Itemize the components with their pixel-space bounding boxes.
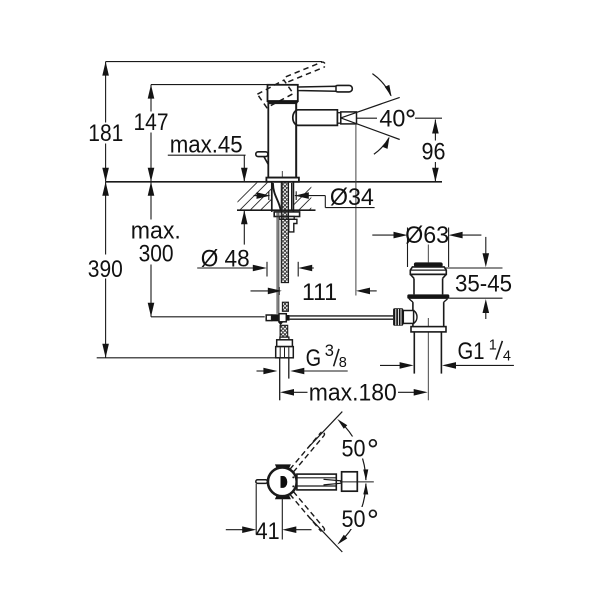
dimension 41 extension line right [281,498,283,540]
diameter 34 underline [325,207,374,209]
svg-text:390: 390 [88,256,123,283]
drain centreline upper [427,245,429,263]
drain tailpipe right wall [440,332,442,374]
rod tee fitting white block [279,314,286,322]
top view screw dot lower [292,485,294,487]
40 degree arc upper with arrowhead [372,74,391,96]
faucet base flange on deck [266,178,299,182]
pop-up plug cap dark top [414,262,443,267]
50 degree extension line lower [308,516,342,552]
dimension 181 vertical line [105,62,107,123]
top view lever arm outline [297,474,336,490]
dashed lever handle raised upper line [286,62,322,77]
dimension 41 line and arrows [226,529,251,531]
extension line top of faucet head (147 datum) [151,84,268,86]
degree symbol lower 50 [370,510,377,517]
drain tailpipe left wall [413,332,415,374]
diameter 34 leader elbow [324,196,326,208]
svg-text:max.45: max.45 [170,132,243,159]
dimension 390 arrows [102,182,109,196]
dimension 111 right arrow [356,288,370,295]
dashed lever handle raised lower line [288,67,324,82]
spray fan centre horizontal line [357,117,378,119]
dimension G3/8 right arrow [290,368,304,375]
dimension max.300 vertical line [150,182,152,220]
shank inner funnel curve [273,183,281,211]
dimension 41 extension line left [255,484,257,535]
pop-up vertical rod left line [276,212,278,314]
svg-text:50: 50 [342,506,366,533]
rod tee fitting left cap [266,315,271,321]
spray fan lower line [341,118,400,140]
top view lever arm inner line upper [297,477,336,479]
upper 50 degree arc arrowhead at centreline [363,469,368,481]
dimension diameter 63 line and arrows [372,234,401,236]
svg-text:147: 147 [134,109,169,136]
top view lever grip [342,472,358,491]
hose ferrule band [280,337,289,340]
dimension max.45 leader underline [168,154,246,156]
top view lever neck taper upper [324,479,342,481]
dimension 96 top extension line [415,117,442,119]
dimension 181 arrows [102,62,109,76]
dimension G1 1/4 line and arrows [380,364,408,366]
svg-text:Ø34: Ø34 [330,184,374,211]
svg-text:300: 300 [139,241,174,268]
top view mounting tab upper [275,464,291,468]
spray fan upper line [341,97,400,118]
upper 50 degree arc [344,426,366,480]
aerator (mousseur) box [341,112,357,124]
top view mounting tab lower [275,495,291,499]
top view dashed lever swung up outer line [293,436,324,472]
top view lever arm inner line lower [297,485,336,487]
pop-up vertical rod right line [278,212,280,314]
dashed lever handle raised tip cap [321,62,325,67]
drain lower body left wall [412,302,414,327]
drain lower body right wall [443,302,445,327]
pop-up rod knob at rear of body [256,152,268,157]
top view dashed lever swung up inner line [290,433,321,469]
drain lever boss fillet arc [414,311,417,324]
dimension 35-45 lower arrow [485,311,487,320]
svg-text:3: 3 [325,342,334,360]
drain taper below seal right [444,299,448,302]
shank inner right tube line [291,183,293,211]
drain coupling nut [411,327,446,332]
G3/8 coupling nut lower with ridges [276,347,294,358]
dimension 96 arrows [432,120,439,134]
svg-text:8: 8 [339,355,347,371]
svg-text:181: 181 [88,120,123,147]
top view dashed lever swung down tip cap [321,528,325,532]
drain flange mid line [410,269,446,271]
flexible supply hose braided upper section [281,182,288,283]
countertop deck bottom surface line [237,209,316,211]
top view screw dot upper [292,476,294,478]
mounting nut lower step [279,217,294,220]
drain neck taper right [443,274,447,278]
svg-text:G1: G1 [458,338,485,365]
dimension 96 vertical line [434,120,436,141]
dimension 35-45 bottom extension line [449,297,502,299]
drain taper below seal left [409,299,413,302]
top view dashed lever swung down outer line [293,492,324,528]
aerator axis extension line vertical [355,124,357,296]
lower 50 degree arc [344,484,366,538]
faucet head bottom collar band [268,100,298,103]
dimension 390 vertical line [105,182,107,255]
extension line hose coupling bottom (390 datum) [97,357,280,359]
drain flange bottom edge [410,273,446,275]
faucet body cylinder [268,103,296,177]
drain upper body right wall [442,278,444,294]
flexible hose braided lower section [280,325,288,339]
diameter 48 extension ticks [266,262,268,277]
faucet lever handle bar [298,86,336,91]
dimension diameter 34 right arrow with tick [295,192,309,199]
drain lever knurled knob [393,308,403,326]
label 50 upper background [339,437,382,459]
mounting bracket clip right [289,219,297,232]
50 degree extension line upper [308,412,342,448]
label G1 fraction slash [496,341,503,360]
pop-up rod knob diagonal link [264,157,269,165]
dimension G3/8 left arrow [257,370,272,372]
faucet lever handle grip capsule [335,85,353,92]
svg-text:1: 1 [489,337,497,353]
top view lever neck taper lower [324,483,342,485]
dimension 147 vertical line [150,85,152,112]
extension line top of handle (181 datum) [106,61,322,63]
dimension 35-45 top extension line [444,267,502,269]
dimension diameter 48 line and arrows [197,267,261,269]
diameter 63 extension line left [407,228,409,268]
degree symbol for 40 [407,110,413,116]
drain upper body left wall [413,278,415,294]
dimension max.300 arrows [148,182,155,196]
svg-text:50: 50 [342,436,366,463]
upper 50 degree arc arrowhead at extension line [337,419,347,429]
svg-text:G: G [306,345,322,372]
drain lever boss cylinder [403,311,413,324]
shank right wall below deck [292,182,294,212]
dimension max.180 line left arrow [280,389,294,396]
flexible hose braided short section [282,302,288,311]
faucet head (cartridge housing) [268,85,298,101]
svg-text:35-45: 35-45 [455,271,512,298]
lower 50 degree arc arrowhead at extension line [337,535,347,545]
svg-text:41: 41 [256,518,280,545]
faucet centreline upper [281,171,283,213]
dimension max.45 lower arrow below deck [243,210,245,244]
shank left wall below deck [271,182,273,212]
mounting nut under deck [274,212,299,217]
svg-text:40: 40 [379,106,405,133]
extension line pop-up rod (max.300 datum) [151,316,265,318]
svg-text:max.180: max.180 [309,380,397,407]
label 50 lower background [339,507,382,529]
countertop deck top surface line [106,181,442,183]
rod tee fitting dark block [272,314,279,321]
drain rubber seal ring black [407,294,449,299]
horizontal pop-up linkage rod lower line [290,318,394,320]
dimension 35-45 upper arrow [485,237,487,256]
connection hose left wall and max.180 extension [279,358,281,401]
aerator connector ring [337,113,340,124]
top view faucet body circle [268,467,297,496]
rod tee fitting lower wedge [278,322,284,326]
dimension max.180 line right arrow [398,391,422,393]
dimension max.45 vertical to deck [243,155,245,182]
dimension 111 left arrow with tick [251,290,277,292]
G3/8 coupling nut upper [277,340,293,347]
lower 50 degree arc arrowhead at centreline [363,483,368,495]
top view dashed lever swung up tip cap [321,432,325,436]
dimension 147 arrows [148,85,155,99]
svg-text:4: 4 [503,349,511,365]
label G3/8 fraction slash [334,349,339,366]
dimension diameter 34 left arrow with tick [254,195,265,197]
top view lever centreline [340,481,374,483]
top view pop-up rod stub left [256,480,268,484]
degree symbol upper 50 [370,440,377,447]
drain centreline lower [427,318,429,400]
top view dashed lever swung down inner line [290,494,321,530]
drain flange body [410,267,446,274]
svg-text:Ø63: Ø63 [405,222,449,249]
40 degree arc lower with arrowhead [374,138,389,155]
top view cartridge D-profile hole [281,476,288,488]
svg-text:96: 96 [422,138,446,165]
diameter 63 extension line right [448,228,450,268]
connection hose right wall [288,358,290,379]
rod tee fitting right dark collar [286,315,289,321]
dashed faucet head in raised position [257,80,293,108]
spout outlet cylinder [293,110,338,126]
svg-text:111: 111 [302,279,337,306]
faucet body right edge over spout [295,103,297,177]
svg-text:Ø 48: Ø 48 [201,246,250,273]
drain neck taper left [410,274,414,278]
horizontal pop-up linkage rod upper line [290,315,394,317]
